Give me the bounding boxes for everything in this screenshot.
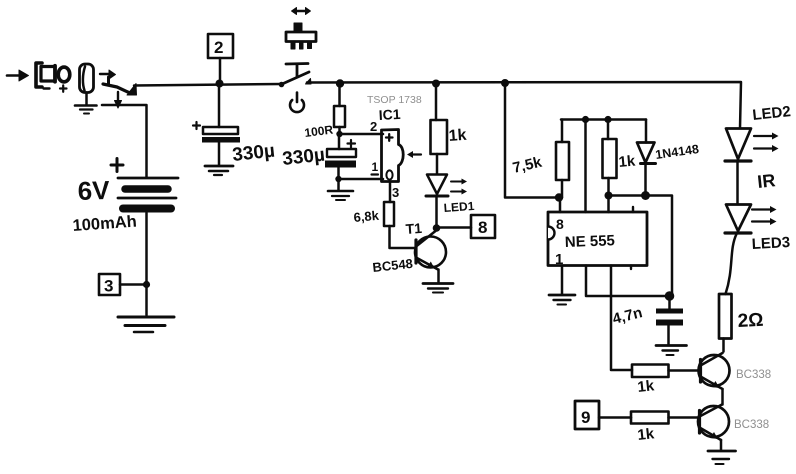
svg-text:1k: 1k — [448, 127, 467, 145]
svg-text:6,8k: 6,8k — [353, 208, 380, 225]
IC1 TSOP1738 — [372, 130, 422, 182]
battery BT1 6V — [111, 159, 178, 209]
wire node to IC1 pin2 — [340, 133, 384, 136]
svg-text:1: 1 — [372, 160, 379, 174]
capacitor C1 330u — [193, 83, 240, 165]
svg-text:LED2: LED2 — [752, 103, 792, 124]
resistor R1 100R — [334, 79, 345, 137]
ground C2 — [328, 191, 353, 200]
DC jack J1 — [80, 64, 137, 108]
svg-text:7,5k: 7,5k — [511, 154, 544, 177]
IC2 NE555 — [548, 207, 647, 269]
svg-text:BC338: BC338 — [736, 369, 771, 381]
wire inner rail — [561, 116, 646, 212]
svg-text:3: 3 — [104, 277, 113, 296]
node 9 box — [575, 401, 631, 429]
svg-text:LED3: LED3 — [751, 234, 790, 253]
svg-text:330µ: 330µ — [281, 145, 326, 170]
svg-text:330µ: 330µ — [231, 141, 276, 166]
resistor R5 1k — [603, 120, 617, 213]
svg-text:3: 3 — [392, 185, 399, 200]
ground Q2 — [708, 451, 736, 464]
wire 555 pin to C3 node — [586, 266, 670, 297]
resistor R4 7.5k — [556, 120, 569, 198]
capacitor C2 330u — [325, 134, 383, 190]
ground battery — [118, 317, 174, 332]
slide switch icon — [286, 8, 316, 50]
wire 555 out to R6 — [611, 266, 632, 371]
wire IC1 pin3 — [389, 182, 392, 202]
svg-text:1N4148: 1N4148 — [654, 142, 699, 162]
svg-text:1k: 1k — [618, 153, 637, 171]
svg-text:1k: 1k — [637, 377, 656, 396]
LED3 — [725, 205, 777, 234]
svg-text:4,7n: 4,7n — [611, 304, 644, 328]
resistor R3 1k — [431, 80, 448, 175]
resistor R8 2ohm — [719, 294, 732, 352]
wire rail to 555 area — [501, 79, 563, 212]
svg-text:IR: IR — [756, 170, 776, 192]
ground C1 — [205, 166, 233, 175]
wire LED2 to LED3 — [736, 162, 739, 205]
ground C3 — [656, 346, 687, 356]
node 2 box — [208, 34, 233, 88]
transistor T1 BC548 — [415, 231, 446, 282]
svg-text:8: 8 — [478, 218, 487, 237]
ground jack — [75, 106, 97, 114]
power-on symbol — [290, 93, 304, 113]
wire jack to battery — [102, 105, 147, 177]
svg-text:6V: 6V — [77, 175, 110, 206]
svg-text:2: 2 — [214, 38, 223, 57]
svg-text:TSOP 1738: TSOP 1738 — [367, 94, 422, 106]
svg-text:IC1: IC1 — [378, 106, 401, 123]
wire 555 pin1 to ground — [561, 266, 564, 295]
wire battery to ground — [145, 213, 148, 315]
svg-text:T1: T1 — [405, 220, 423, 237]
svg-text:8: 8 — [556, 216, 564, 232]
diode D1 1N4148 — [637, 120, 656, 201]
resistor R2 6.8k — [384, 202, 416, 248]
switch S1 — [279, 64, 311, 88]
resistor R6 1k — [632, 365, 700, 378]
svg-text:2: 2 — [370, 119, 377, 134]
wire main rail right — [307, 82, 741, 128]
svg-text:BC548: BC548 — [372, 256, 414, 275]
transistor Q1 BC338 — [699, 353, 730, 405]
wire LED3 to R8 — [726, 234, 737, 294]
ground 555 — [549, 295, 575, 305]
node 8 box — [437, 215, 496, 238]
ground T1 — [423, 284, 453, 293]
svg-text:9: 9 — [581, 408, 590, 427]
node 3 box — [99, 274, 150, 295]
wire node row to cap C3 — [609, 196, 673, 297]
svg-text:1k: 1k — [637, 425, 656, 444]
resistor R7 1k — [631, 412, 699, 424]
LED2 — [725, 129, 779, 162]
svg-text:100R: 100R — [304, 123, 335, 140]
svg-text:100mAh: 100mAh — [72, 213, 137, 235]
svg-text:BC338: BC338 — [734, 419, 769, 431]
transistor Q2 BC338 — [698, 405, 729, 451]
DC plug P1 — [7, 63, 70, 92]
svg-text:2Ω: 2Ω — [737, 310, 764, 332]
svg-text:LED1: LED1 — [443, 199, 475, 215]
wire main rail left — [134, 84, 281, 86]
LED1 — [426, 175, 467, 232]
svg-text:NE 555: NE 555 — [565, 232, 616, 251]
capacitor C3 4.7n — [656, 291, 683, 344]
